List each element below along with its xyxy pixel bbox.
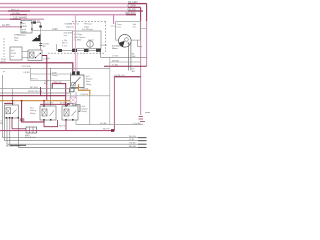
svg-text:BR xx: BR xx — [62, 43, 69, 45]
relay K2 4x4 — [71, 75, 85, 88]
inline connector a — [33, 22, 36, 24]
wire maroon vertical x40.5 — [40, 87, 42, 96]
maroon drop into K4 — [43, 101, 45, 106]
wire grey vertical left edge — [2, 75, 4, 138]
svg-text:DK GRN: DK GRN — [128, 1, 138, 4]
svg-text:PWR GD: PWR GD — [53, 82, 62, 84]
svg-text:*14WAB PW xx: *14WAB PW xx — [64, 23, 80, 26]
wire maroon y95.6 — [0, 95, 66, 97]
svg-text:4x4 BK: 4x4 BK — [100, 123, 107, 125]
svg-text:BN WH: BN WH — [129, 146, 136, 148]
svg-text:DK GN: DK GN — [129, 136, 136, 138]
svg-text:Safety: Safety — [30, 109, 37, 112]
junction dots — [12, 100, 14, 102]
svg-text:WH RD: WH RD — [112, 60, 120, 62]
maroon drop from K5 — [65, 120, 67, 131]
small relay symbol box — [70, 97, 76, 103]
inline connector b — [39, 26, 42, 28]
svg-text:Motor: Motor — [112, 47, 118, 50]
maroon vertical x21.5 — [22, 101, 44, 122]
wire module down right — [101, 51, 147, 58]
wire splice down to relay — [40, 41, 42, 50]
transfer case connector double vertical — [129, 42, 131, 71]
shift motor M — [119, 35, 132, 48]
svg-text:4 mm: 4 mm — [62, 45, 67, 47]
relay K1 — [28, 50, 42, 61]
svg-text:C146 Bk: C146 Bk — [80, 94, 89, 96]
svg-text:Lamp: Lamp — [52, 75, 58, 77]
wire orange y100.6 — [0, 100, 70, 102]
wire dark left segment line4 — [10, 14, 27, 16]
bottom bus wire 4 — [19, 146, 147, 148]
wire y50.5 with connectors — [57, 50, 101, 52]
wire dark right end segment line1 — [128, 3, 147, 5]
wire bus line 5 (short, into connector) — [0, 18, 44, 20]
svg-text:OG BK: OG BK — [129, 143, 136, 145]
wire grey from connector down — [75, 92, 77, 125]
svg-text:LT GRN: LT GRN — [127, 5, 136, 8]
grey stub right edge — [145, 112, 150, 114]
svg-text:RD WH: RD WH — [30, 87, 38, 89]
maroon wire above K3 — [4, 103, 13, 105]
wire motor box stub to V146 — [140, 28, 146, 30]
maroon n-shape PWR — [52, 84, 65, 106]
svg-text:DG WH: DG WH — [12, 13, 20, 15]
svg-text:Start: Start — [86, 80, 91, 83]
wire dark left segment line5 — [10, 18, 21, 20]
wire grey y74 — [31, 73, 73, 75]
dark wire y145.3 — [10, 144, 26, 146]
svg-text:C146 BK: C146 BK — [80, 88, 89, 90]
svg-text:LT BL: LT BL — [129, 139, 135, 141]
svg-text:RD PK: RD PK — [59, 125, 66, 127]
svg-text:4WD: 4WD — [52, 72, 57, 74]
svg-text:DK BL OG: DK BL OG — [115, 75, 126, 77]
module motor symbol — [87, 41, 94, 48]
svg-text:4WABS: 4WABS — [14, 34, 22, 37]
dashed box 4x4 shift module top — [72, 21, 106, 23]
svg-text:mtr: mtr — [133, 25, 136, 28]
relay K5 — [62, 106, 78, 120]
wire y62 — [110, 61, 141, 63]
maroon wire into switch — [12, 128, 27, 130]
svg-text:C xx BK: C xx BK — [133, 123, 141, 125]
svg-text:C146: C146 — [52, 29, 58, 31]
wire grey y95.8 — [66, 95, 110, 97]
wire bus line 4 — [0, 14, 136, 16]
wire grey vertical x89.8 — [89, 96, 91, 125]
wire grey y80.5 — [31, 80, 73, 82]
svg-text:PCM: PCM — [11, 53, 16, 55]
svg-text:C137: C137 — [127, 43, 133, 45]
svg-text:WH: WH — [132, 56, 136, 58]
transfer case box — [116, 22, 141, 40]
bottom bus wire 1 — [3, 137, 147, 139]
maroon pi-shape right — [114, 77, 140, 131]
svg-text:4x4 Shit/po: 4x4 Shit/po — [82, 28, 94, 31]
wire grey vertical x12.5 — [12, 89, 14, 101]
svg-text:GEM: GEM — [22, 26, 27, 28]
svg-text:C171: C171 — [111, 26, 117, 28]
dashed box right — [105, 22, 107, 54]
relay K3 (left) — [5, 105, 19, 118]
wire from GEM to splice — [32, 23, 41, 34]
svg-text:PK LG: PK LG — [31, 79, 38, 81]
connector L stub right of circle — [138, 40, 142, 47]
wire vertical joining — [30, 68, 32, 80]
wire bus line 1 (pink, top) — [0, 3, 147, 5]
wire pink into module (left) — [0, 26, 21, 28]
connector squares above relay K2 — [72, 71, 75, 75]
wire grey y88.6 — [0, 88, 79, 90]
maroon wire above K4 K5 — [40, 103, 70, 105]
svg-text:C137 RD: C137 RD — [22, 66, 31, 68]
connector box below — [75, 105, 80, 112]
svg-text:Hydr: Hydr — [14, 36, 19, 39]
maroon drop into K3 — [12, 101, 14, 105]
long maroon wire across left — [0, 63, 73, 72]
connector above relay K4 — [68, 103, 74, 106]
svg-text:LG PPL: LG PPL — [2, 25, 11, 27]
connector GEM C1 — [20, 21, 32, 34]
wire dark right end segment line3 — [128, 10, 143, 12]
grey verticals from relay K3 to bottom bus — [4, 118, 6, 141]
module box PCM follower — [10, 47, 22, 60]
svg-text:Unit: Unit — [14, 39, 18, 42]
wire dark right end segment line2 — [128, 6, 141, 8]
connector dashes near x140 — [139, 116, 144, 118]
pink verticals into module — [74, 16, 76, 72]
wire PCM to relay a — [22, 51, 28, 53]
dashed box bottom — [48, 52, 106, 54]
svg-text:PW 4x4: PW 4x4 — [84, 24, 92, 26]
long grey wire across — [0, 67, 110, 69]
wire dark left segment line3 — [8, 10, 30, 12]
svg-text:x 14a: x 14a — [62, 40, 68, 42]
grey bottom line y124.6 — [76, 124, 143, 126]
svg-text:YEL RD: YEL RD — [127, 8, 136, 11]
svg-text:(Option): (Option) — [66, 25, 74, 28]
pink long wire y130.6 — [0, 130, 114, 132]
maroon vertical x12 to switch — [11, 118, 13, 129]
wire K4 bottom to maroon y126.7 — [44, 120, 58, 127]
svg-text:xx: xx — [3, 71, 5, 73]
svg-text:Trans: Trans — [117, 23, 122, 26]
svg-text:PPL LG: PPL LG — [11, 9, 19, 11]
wire bus line 2 — [0, 6, 141, 8]
svg-text:Safety: Safety — [82, 108, 89, 111]
PCM dashed border left — [3, 38, 5, 57]
wire vertical pink right V146 — [146, 4, 148, 67]
svg-text:4WD: 4WD — [22, 31, 27, 33]
wire bus line 3 — [0, 10, 143, 12]
bottom bus wire 2 — [5, 140, 147, 142]
junction arrow — [111, 129, 114, 132]
4wd shift switch connector — [26, 127, 37, 133]
wire pink drop to shift motor — [113, 15, 115, 24]
svg-text:C1035: C1035 — [101, 45, 108, 47]
wire dark right end segment line4 — [126, 14, 136, 16]
instrument cluster left edge — [50, 68, 52, 106]
relay K4 — [40, 106, 56, 120]
wire grey vertical x70.5 — [70, 72, 72, 104]
splice triangle — [32, 34, 41, 42]
module solid box — [73, 31, 102, 49]
wire GEM to dashed box — [32, 30, 73, 32]
svg-text:out: out — [11, 55, 14, 58]
maroon wire right y66.2 — [104, 65, 147, 67]
wire grey y93 — [0, 92, 71, 94]
svg-text:BN: BN — [132, 71, 135, 73]
wire relay K1 output maroon — [42, 56, 47, 101]
svg-text:LT GN: LT GN — [112, 56, 118, 58]
wire vertical pink right V140 — [140, 7, 142, 115]
connector C1037 ticks — [39, 42, 42, 44]
svg-text:RD PK: RD PK — [103, 129, 110, 131]
connector below relay K2 — [70, 88, 75, 92]
dark stubs bottom right — [138, 137, 147, 139]
wire PCM to relay b — [22, 57, 28, 59]
wire orange jog — [79, 84, 90, 96]
connector smudge — [20, 118, 25, 121]
svg-text:LB BK: LB BK — [24, 72, 31, 74]
bottom bus wire 3 — [7, 143, 147, 145]
svg-text:C137 4WABS: C137 4WABS — [13, 17, 28, 20]
svg-text:BK GND xx BK: BK GND xx BK — [6, 146, 21, 148]
svg-text:ORG BLK: ORG BLK — [125, 12, 136, 15]
wire vertical x109.8 — [109, 57, 111, 124]
